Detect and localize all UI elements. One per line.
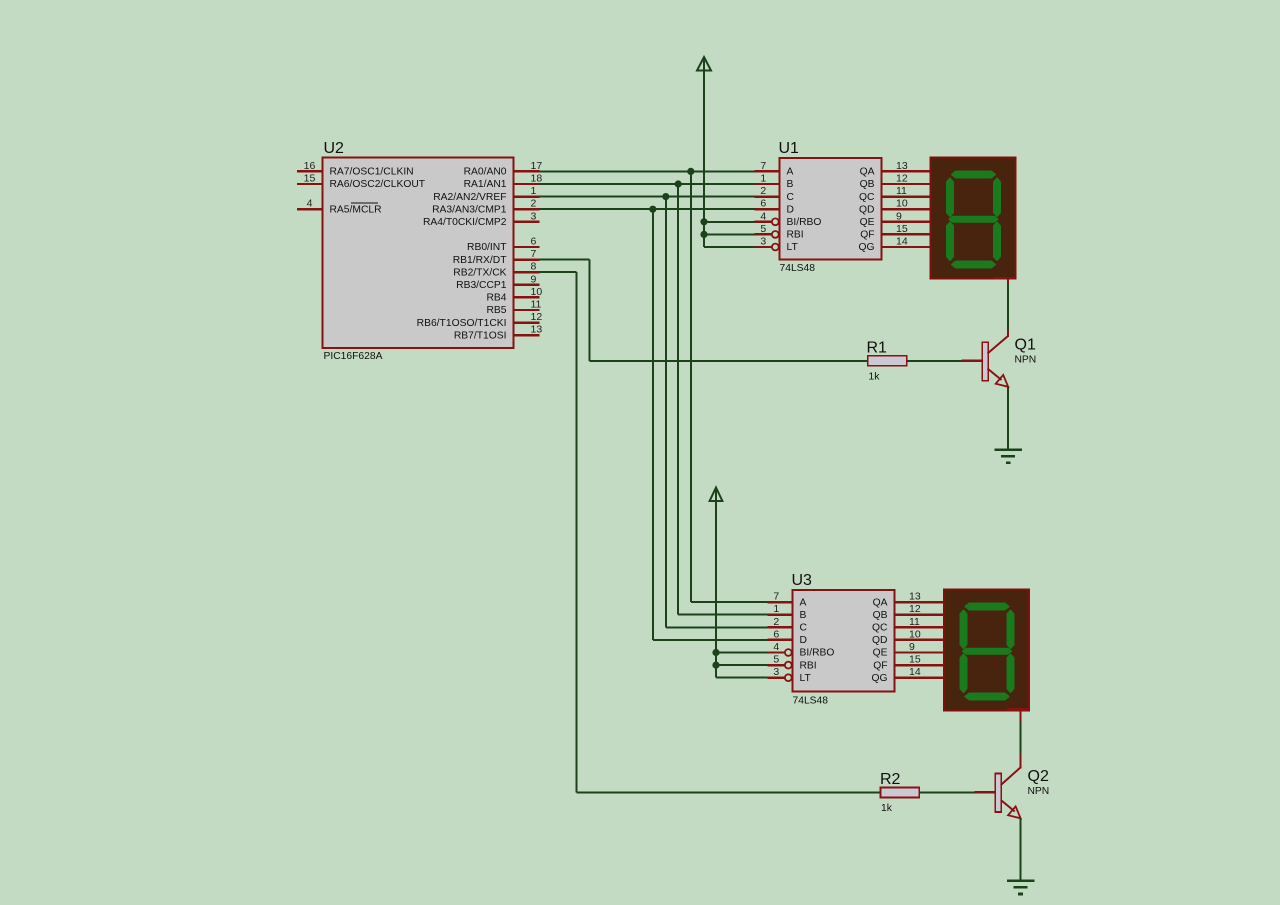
U3 pin 11 (QC) [872, 616, 920, 634]
wire branch C down to U3.C [666, 197, 768, 628]
svg-text:3: 3 [773, 666, 779, 678]
wire R1 to Q1 base [907, 360, 962, 362]
DS2 segment f [961, 611, 967, 649]
svg-text:9: 9 [896, 210, 902, 222]
svg-text:13: 13 [531, 324, 543, 336]
svg-text:RA0/AN0: RA0/AN0 [464, 167, 507, 178]
svg-text:6: 6 [773, 628, 779, 640]
svg-text:RB0/INT: RB0/INT [467, 242, 507, 253]
junction dot VCC/BI-RBO [700, 218, 707, 225]
svg-text:NPN: NPN [1015, 355, 1037, 366]
U2 pin 9 (RB3/CCP1) [456, 273, 539, 291]
svg-text:QC: QC [872, 623, 888, 634]
svg-text:U2: U2 [324, 140, 345, 157]
svg-text:QF: QF [873, 660, 887, 671]
U1 pin 9 (QE) [860, 210, 907, 228]
U2 pin 2 (RA3/AN3/CMP1) [432, 198, 539, 216]
U1 pin 10 (QD) [859, 198, 908, 216]
svg-text:Q1: Q1 [1015, 337, 1036, 354]
svg-text:1: 1 [760, 173, 766, 185]
junction dot VCC/BI-RBO 2 [712, 649, 719, 656]
IC U1 74LS48 body [780, 158, 882, 260]
svg-text:74LS48: 74LS48 [780, 263, 816, 274]
svg-text:BI/RBO: BI/RBO [800, 648, 835, 659]
U1 pin 3 (LT) [754, 236, 798, 254]
junction dot B [675, 180, 682, 187]
wire RA2 to U1.C [540, 196, 755, 198]
U2 pin 7 (RB1/RX/DT) [453, 248, 540, 266]
svg-text:D: D [787, 204, 794, 215]
U3 pin 5 (RBI) [767, 654, 816, 672]
wire U1.QG to DS1 [882, 246, 931, 248]
svg-text:QE: QE [860, 217, 875, 228]
wire U3.QG to DS2 [895, 677, 945, 679]
ground symbol (Q1) [995, 450, 1022, 463]
svg-text:U3: U3 [792, 572, 813, 589]
svg-text:Q2: Q2 [1028, 768, 1049, 785]
resistor R1 1k [867, 340, 907, 383]
svg-text:2: 2 [760, 185, 766, 197]
svg-text:U1: U1 [779, 140, 800, 157]
U1 pin 4 (BI/RBO) [754, 210, 821, 228]
svg-text:QA: QA [873, 597, 888, 608]
svg-text:10: 10 [896, 198, 908, 210]
wire U1.QE to DS1 [882, 221, 931, 223]
wire branch D down to U3.D [653, 209, 768, 640]
svg-text:C: C [800, 623, 808, 634]
svg-text:8: 8 [531, 261, 537, 273]
svg-text:6: 6 [760, 198, 766, 210]
svg-text:RB1/RX/DT: RB1/RX/DT [453, 255, 507, 266]
junction dot VCC/RBI [700, 231, 707, 238]
svg-text:4: 4 [760, 210, 766, 222]
svg-text:2: 2 [531, 198, 537, 210]
U3 value label 74LS48 [793, 696, 829, 707]
svg-text:RB2/TX/CK: RB2/TX/CK [453, 267, 506, 278]
wire U3.QB to DS2 [895, 614, 945, 616]
DS2 segment d [966, 694, 1009, 700]
svg-text:RA7/OSC1/CLKIN: RA7/OSC1/CLKIN [330, 167, 414, 178]
svg-text:15: 15 [304, 173, 316, 185]
wire branch B down to U3.B [678, 184, 767, 615]
svg-text:LT: LT [787, 242, 799, 253]
svg-text:QD: QD [872, 635, 887, 646]
DS1 segment g [950, 217, 998, 222]
power terminal VCC (middle) [710, 488, 723, 678]
power terminal VCC (top) [697, 57, 711, 247]
junction dot VCC/RBI 2 [712, 662, 719, 669]
DS2 segment g [963, 649, 1011, 654]
transistor Q2 NPN [995, 768, 1049, 819]
wire RA0 to U1.A [540, 170, 755, 172]
U2 pin 11 (RB5) [486, 299, 541, 317]
svg-text:12: 12 [896, 173, 908, 185]
junction dot D [649, 206, 656, 213]
U2 pin 15 (RA6/OSC2/CLKOUT) [297, 173, 426, 191]
Q2 base pin stub [975, 791, 996, 793]
svg-text:13: 13 [909, 591, 921, 603]
svg-text:7: 7 [760, 160, 766, 172]
U1 pin 7 (A) [754, 160, 793, 178]
svg-text:R2: R2 [880, 771, 901, 788]
svg-text:1k: 1k [869, 372, 881, 383]
DS1 segment a [952, 172, 995, 178]
svg-text:QF: QF [860, 230, 874, 241]
svg-text:7: 7 [531, 248, 537, 260]
U3 pin 13 (QA) [873, 591, 921, 609]
U1 pin 2 (C) [754, 185, 794, 203]
svg-text:4: 4 [773, 641, 779, 653]
svg-text:QD: QD [859, 204, 874, 215]
DS1 segment c [994, 223, 1000, 261]
svg-text:PIC16F628A: PIC16F628A [324, 351, 383, 362]
U2 pin 17 (RA0/AN0) [464, 160, 543, 178]
7-segment display DS2 body [944, 590, 1029, 711]
svg-text:RA2/AN2/VREF: RA2/AN2/VREF [433, 192, 506, 203]
svg-text:RB3/CCP1: RB3/CCP1 [456, 280, 507, 291]
DS1 segment e [947, 223, 953, 261]
svg-text:17: 17 [531, 160, 543, 172]
svg-text:QG: QG [871, 673, 887, 684]
svg-text:A: A [800, 597, 807, 608]
wire RA1 to U1.B [540, 183, 755, 185]
svg-text:RA4/T0CKI/CMP2: RA4/T0CKI/CMP2 [423, 217, 507, 228]
wire VCC to U3.LT [716, 677, 767, 679]
wire U1.QA to DS1 [882, 170, 931, 172]
svg-text:QE: QE [873, 648, 888, 659]
U3 pin 14 (QG) [871, 666, 920, 684]
transistor Q1 NPN [982, 336, 1036, 387]
svg-text:RA6/OSC2/CLKOUT: RA6/OSC2/CLKOUT [330, 179, 426, 190]
svg-text:A: A [787, 167, 794, 178]
svg-text:1: 1 [773, 603, 779, 615]
U2 pin 4 (RA5/MCLR) [297, 198, 382, 216]
U1 value label 74LS48 [780, 263, 816, 274]
svg-text:3: 3 [760, 236, 766, 248]
svg-text:74LS48: 74LS48 [793, 696, 829, 707]
svg-text:QG: QG [858, 242, 874, 253]
svg-text:11: 11 [896, 185, 907, 197]
svg-text:12: 12 [909, 603, 921, 615]
wire DS2 common to Q2 collector [1019, 711, 1021, 769]
U2 pin 12 (RB6/T1OSO/T1CKI) [417, 311, 543, 329]
U2 pin 1 (RA2/AN2/VREF) [433, 185, 539, 203]
DS2 segment c [1008, 655, 1014, 693]
wire VCC to U3.BI/RBO [716, 652, 767, 654]
wire DS1 common to Q1 collector [1007, 280, 1009, 338]
svg-text:D: D [800, 635, 807, 646]
svg-text:RB6/T1OSO/T1CKI: RB6/T1OSO/T1CKI [417, 318, 507, 329]
svg-text:LT: LT [800, 673, 812, 684]
svg-text:RA5/MCLR: RA5/MCLR [330, 204, 382, 215]
svg-text:C: C [787, 192, 795, 203]
7-segment display DS1 body [931, 158, 1016, 279]
wire RB1 to R1 (net) [540, 260, 868, 361]
svg-text:B: B [800, 610, 807, 621]
svg-text:QC: QC [859, 192, 875, 203]
DS1 segment f [947, 179, 953, 217]
svg-text:RBI: RBI [800, 660, 817, 671]
svg-text:1k: 1k [881, 803, 893, 814]
wire branch A down to U3.A [691, 171, 768, 602]
svg-text:RB4: RB4 [486, 293, 506, 304]
U3 reference label [792, 572, 813, 589]
svg-text:9: 9 [531, 273, 537, 285]
wire U1.QB to DS1 [882, 183, 931, 185]
U1 pin 13 (QA) [860, 160, 908, 178]
svg-text:BI/RBO: BI/RBO [787, 217, 822, 228]
wire U1.QF to DS1 [882, 233, 931, 235]
U2 pin 18 (RA1/AN1) [464, 173, 543, 191]
junction dot A [687, 168, 694, 175]
U2 pin 8 (RB2/TX/CK) [453, 261, 539, 279]
svg-text:RB7/T1OSI: RB7/T1OSI [454, 330, 507, 341]
wire U3.QE to DS2 [895, 651, 945, 653]
svg-text:R1: R1 [867, 340, 888, 357]
svg-text:QB: QB [860, 179, 875, 190]
svg-text:12: 12 [531, 311, 543, 323]
U2 pin 6 (RB0/INT) [467, 236, 539, 254]
IC U2 PIC16F628A body [323, 158, 514, 349]
wire VCC to U1.RBI [704, 233, 754, 235]
U3 pin 6 (D) [767, 628, 807, 646]
U1 pin 12 (QB) [860, 173, 908, 191]
svg-text:9: 9 [909, 641, 915, 653]
svg-text:5: 5 [773, 654, 779, 666]
svg-text:4: 4 [307, 198, 313, 210]
svg-text:14: 14 [896, 236, 908, 248]
DS2 segment b [1008, 611, 1014, 649]
U1 pin 14 (QG) [858, 236, 907, 254]
svg-text:1: 1 [531, 185, 537, 197]
wire RB2 to R2 (net) [540, 272, 881, 792]
resistor R2 1k [880, 771, 919, 814]
ground symbol (Q2) [1007, 881, 1034, 894]
wire Q1 emitter to ground [1007, 387, 1009, 450]
junction dot C [662, 193, 669, 200]
svg-text:7: 7 [773, 591, 779, 603]
DS1 common pin strip [994, 277, 1016, 280]
wire VCC to U1.BI/RBO [704, 221, 754, 223]
svg-text:11: 11 [909, 616, 920, 628]
svg-text:10: 10 [531, 286, 543, 298]
U3 pin 7 (A) [767, 591, 806, 609]
wire RA3 to U1.D [540, 208, 755, 210]
wire U1.QC to DS1 [882, 195, 931, 197]
svg-text:13: 13 [896, 160, 908, 172]
svg-text:B: B [787, 179, 794, 190]
U3 pin 9 (QE) [873, 641, 920, 659]
Q1 base pin stub [961, 360, 982, 362]
svg-text:10: 10 [909, 628, 921, 640]
U3 pin 4 (BI/RBO) [767, 641, 834, 659]
U1 reference label [779, 140, 800, 157]
DS2 segment e [961, 655, 967, 693]
U2 value label PIC16F628A [324, 351, 383, 362]
U1 pin 11 (QC) [859, 185, 907, 203]
U3 pin 15 (QF) [873, 654, 921, 672]
svg-text:11: 11 [531, 299, 542, 311]
DS2 common pin strip [1007, 708, 1028, 711]
U3 pin 1 (B) [767, 603, 806, 621]
svg-text:RA3/AN3/CMP1: RA3/AN3/CMP1 [432, 204, 507, 215]
U1 pin 1 (B) [754, 173, 793, 191]
wire U3.QF to DS2 [895, 664, 945, 666]
U1 pin 5 (RBI) [754, 223, 803, 241]
svg-text:5: 5 [760, 223, 766, 235]
wire Q2 emitter to ground [1020, 818, 1022, 881]
svg-text:16: 16 [304, 160, 316, 172]
svg-text:18: 18 [531, 173, 543, 185]
wire U3.QA to DS2 [895, 601, 945, 603]
wire VCC to U3.RBI [716, 664, 767, 666]
svg-text:3: 3 [531, 210, 537, 222]
U3 pin 10 (QD) [872, 628, 921, 646]
U1 pin 15 (QF) [860, 223, 908, 241]
U2 pin 13 (RB7/T1OSI) [454, 324, 542, 342]
svg-text:RB5: RB5 [486, 305, 506, 316]
svg-text:RA1/AN1: RA1/AN1 [464, 179, 507, 190]
U2 pin 10 (RB4) [486, 286, 542, 304]
svg-text:6: 6 [531, 236, 537, 248]
U3 pin 12 (QB) [873, 603, 921, 621]
svg-text:15: 15 [896, 223, 908, 235]
U2 reference label [324, 140, 345, 157]
U2 pin 16 (RA7/OSC1/CLKIN) [297, 160, 414, 178]
U3 pin 3 (LT) [767, 666, 811, 684]
wire U1.QD to DS1 [882, 208, 931, 210]
svg-text:QA: QA [860, 167, 875, 178]
svg-text:RBI: RBI [787, 230, 804, 241]
DS2 segment a [966, 604, 1009, 610]
wire VCC to U1.LT [704, 246, 754, 248]
svg-text:QB: QB [873, 610, 888, 621]
U2 pin 3 (RA4/T0CKI/CMP2) [423, 210, 540, 228]
U1 pin 6 (D) [754, 198, 794, 216]
DS1 segment d [952, 262, 995, 268]
wire U3.QC to DS2 [895, 626, 945, 628]
svg-text:15: 15 [909, 654, 921, 666]
wire R2 to Q2 base [919, 791, 974, 793]
wire U3.QD to DS2 [895, 639, 945, 641]
svg-text:NPN: NPN [1028, 786, 1050, 797]
IC U3 74LS48 body [793, 590, 895, 692]
U3 pin 2 (C) [767, 616, 807, 634]
DS1 segment b [994, 179, 1000, 217]
svg-text:14: 14 [909, 666, 921, 678]
svg-text:2: 2 [773, 616, 779, 628]
